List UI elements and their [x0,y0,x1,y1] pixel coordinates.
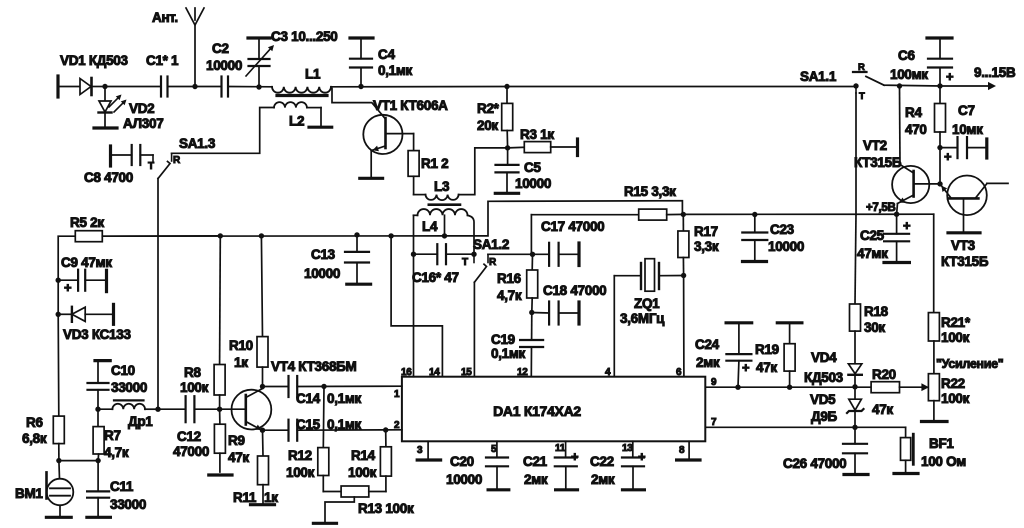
label C24 value [696,355,720,370]
capacitor C1 [161,77,168,97]
wire Dr1 to C12 [158,408,186,410]
wire SA1.3 R to L2 [172,108,274,154]
svg-text:VD4: VD4 [811,350,837,365]
resistor R12 [318,386,329,491]
node R8-R9 junction [217,407,222,412]
capacitor C20 [486,441,508,488]
label R9 [228,433,245,448]
wire R16 top riser [530,215,532,255]
transistor VT1 [363,115,413,154]
wire L4 right down [468,215,475,254]
label SA1.3 [179,136,216,151]
svg-text:2мк: 2мк [696,355,720,370]
label VT2 [863,138,887,153]
svg-text:100 Ом: 100 Ом [921,454,966,469]
ground R11 [251,503,275,506]
node R7-C11 junction [95,458,100,463]
svg-text:6,8к: 6,8к [22,431,47,446]
label R8 [184,365,201,380]
label pin4 [605,367,611,378]
wire R17 to pin6 [683,276,685,377]
svg-text:R8: R8 [184,365,201,380]
svg-text:R13 100к: R13 100к [358,501,414,516]
ground R22 [922,420,948,423]
ground C23 [743,260,767,263]
svg-text:L3: L3 [434,179,450,194]
label pin11 [555,443,566,454]
label C4 [378,47,395,62]
svg-text:12: 12 [517,367,528,378]
label R8 value [180,380,209,395]
svg-text:0,1мк: 0,1мк [491,346,526,361]
label L4 [422,219,438,234]
ground C20 [488,488,509,491]
svg-text:7: 7 [711,417,717,428]
svg-text:C7: C7 [958,103,975,118]
svg-text:L2: L2 [289,114,304,129]
svg-text:C8 4700: C8 4700 [84,170,133,185]
node C6 VT2 junction [897,83,902,88]
label R11 [233,490,257,505]
svg-text:100к: 100к [286,465,315,480]
svg-text:R7: R7 [104,428,121,443]
resistor R16 [527,254,538,312]
svg-text:BF1: BF1 [929,436,954,451]
capacitor C21 [555,441,577,488]
svg-text:15: 15 [461,367,472,378]
label pin6 [676,367,682,378]
svg-text:9: 9 [711,377,717,388]
resistor R9 [214,409,225,472]
label L2 [289,114,304,129]
label VD4 type [804,370,844,385]
svg-text:+7,5В: +7,5В [866,202,896,214]
svg-text:10000: 10000 [206,58,242,73]
svg-text:R17: R17 [694,224,718,239]
wire ZQ1 to pin4 [613,276,615,377]
svg-text:C5: C5 [524,160,541,175]
wire C1 to antenna node [168,86,222,88]
svg-text:VD2: VD2 [129,101,154,116]
label VD2 value [123,116,163,131]
label C7 [958,103,975,118]
zener VD3 [56,307,113,322]
label R12 value [286,465,315,480]
svg-text:33000: 33000 [110,497,146,512]
label pin15 [461,367,472,378]
svg-text:R10: R10 [229,338,253,353]
label BF1 value [921,454,966,469]
resistor R6 [53,416,64,461]
svg-text:C4: C4 [378,47,395,62]
svg-text:R9: R9 [228,433,245,448]
label R22 [941,376,965,391]
transistor VT3 [940,176,1008,232]
wire pin1 C14 [263,386,289,388]
label R18 value [864,320,885,335]
node C16 left junction [411,252,416,257]
label +7.5V [866,202,896,214]
svg-text:ZQ1: ZQ1 [634,296,660,311]
resistor R18 [850,214,861,363]
core Dr1 [114,399,144,401]
label R10 [229,338,253,353]
svg-text:R6: R6 [26,415,43,430]
inductor Dr1 [98,404,158,409]
ground BF1 [894,472,918,475]
label pin5 [491,444,497,455]
label C12 value [173,444,209,459]
label SA1.2 [473,237,509,252]
svg-text:C10: C10 [111,363,135,378]
wire emitter C15 [263,429,289,431]
node R16-C18 junction [529,310,534,315]
svg-text:10000: 10000 [768,239,804,254]
label pin9 [711,377,717,388]
svg-text:L4: L4 [422,219,438,234]
label SA1.2 R [489,257,497,268]
svg-text:SA1.1: SA1.1 [800,69,837,84]
label C10 value [111,380,147,395]
wire VD3 to R6 [57,314,60,416]
label C14 [296,391,321,406]
wire SA1.1 T down to rail [855,93,857,214]
svg-text:КД503: КД503 [804,370,844,385]
ground C5 [495,192,518,195]
svg-text:VD5: VD5 [810,392,836,407]
label C25 plus [903,218,911,233]
resistor R4 [935,86,946,148]
label C8 [84,170,133,185]
inductor L1 [272,87,331,93]
svg-text:C25: C25 [860,228,885,243]
label BF1 [929,436,954,451]
label C9 [61,255,112,270]
label C6 plus [946,69,954,84]
capacitor C16 [414,244,475,264]
label R17 value [694,239,719,254]
svg-text:R: R [489,257,497,268]
label C20 value [446,472,482,487]
svg-text:C13: C13 [311,247,336,262]
node L4 tap junction [442,233,447,238]
node C24 junction [735,385,740,390]
wire SA1.2 blade to pin15 [473,282,475,376]
variable capacitor C3 [246,38,274,87]
capacitor C12 [186,396,195,422]
svg-text:VT4 КТ368БМ: VT4 КТ368БМ [271,359,357,374]
resistor R2 [502,87,513,148]
label C22 plus [638,449,646,464]
terminal R3 right [576,139,579,156]
capacitor C24 [726,323,752,387]
svg-text:C15: C15 [296,417,321,432]
svg-text:R: R [173,155,181,166]
label C24 plus [742,360,750,375]
label C22 value [591,472,615,487]
diode VD1 [80,78,105,95]
capacitor C13 [345,235,369,283]
antenna Ант. [186,8,204,87]
wire L4 tap [444,215,446,236]
capacitor C7 [940,137,987,158]
svg-text:Д9Б: Д9Б [811,409,838,424]
label R16 [497,271,522,286]
svg-text:C6: C6 [898,48,915,63]
label SA1.1 [800,69,837,84]
svg-text:4,7к: 4,7к [497,288,522,303]
svg-text:АЛ307: АЛ307 [123,116,163,131]
terminal C17 right [577,243,580,266]
label C9 plus [64,280,72,295]
label C26 [783,456,846,471]
label C19 value [491,346,526,361]
label VD1 [60,53,128,68]
wire +7.5V rail [683,213,933,215]
svg-text:3,3к: 3,3к [694,239,719,254]
svg-text:R15 3,3к: R15 3,3к [624,184,676,199]
svg-text:47к: 47к [872,402,893,417]
node VT2 base junction [937,181,942,186]
node C14-R12 junction [321,384,326,389]
node R8 junction [218,233,223,238]
ground C11 [87,516,111,519]
svg-text:L1: L1 [305,67,321,82]
terminal input left [56,76,59,97]
svg-text:R18: R18 [864,304,889,319]
svg-text:C22: C22 [590,454,614,469]
svg-text:100к: 100к [941,391,970,406]
svg-text:470: 470 [905,122,927,137]
node VD5 pin7 junction [852,425,857,430]
transistor VT4 [232,389,272,431]
svg-text:R14: R14 [351,448,376,463]
ground C21 [556,488,578,491]
svg-text:0,1мк: 0,1мк [327,391,362,406]
node R2-R3-C5 junction [505,145,510,150]
label R12 [288,448,312,463]
label C25 [860,228,885,243]
label BM1 [15,486,43,501]
svg-text:100к: 100к [348,465,377,480]
svg-text:3: 3 [417,445,423,456]
svg-text:R19: R19 [755,342,779,357]
core L3/L4 [429,203,460,206]
svg-text:+: + [742,360,750,375]
label antenna [152,10,178,25]
label C11 [110,479,134,494]
svg-text:C24: C24 [695,337,720,352]
label C25 value [857,246,888,261]
terminal C18 right [577,302,580,324]
svg-text:C23: C23 [770,222,795,237]
svg-text:Т: Т [859,91,865,102]
wire C9 to VD3 [57,280,59,314]
wire C12 to VT4 base [194,408,245,410]
svg-text:1: 1 [394,389,400,400]
svg-text:33000: 33000 [111,380,147,395]
node C10-Dr1 junction [95,407,100,412]
svg-text:VT2: VT2 [863,138,887,153]
ground C25 [884,261,909,264]
svg-text:VT3: VT3 [951,238,976,253]
label R11 value [264,490,278,505]
crystal ZQ1 [614,259,683,292]
svg-text:47к: 47к [756,360,777,375]
capacitor C14 [289,376,402,397]
wire pin7 [705,426,905,428]
terminal C13 bottom [347,283,371,286]
label R15 [624,184,676,199]
label R18 [864,304,889,319]
resistor R11 [258,430,269,503]
svg-text:C16* 47: C16* 47 [412,270,459,285]
label C23 value [768,239,804,254]
capacitor C22 [622,441,644,488]
label R20 [872,367,896,382]
label C21 plus [571,449,579,464]
svg-text:R16: R16 [497,271,522,286]
resistor R17 [678,214,689,275]
label VD5 [810,392,836,407]
label R14 value [348,465,377,480]
label C14 value [327,391,362,406]
wire SA1.1 to C6 [884,84,940,87]
resistor R8 [214,236,225,409]
capacitor C23 [742,215,767,261]
capacitor C19 [520,313,543,377]
label C10 [111,363,135,378]
label L1 [305,67,321,82]
wire VT2 emitter to rail [896,204,899,215]
label C21 [523,454,548,469]
svg-text:C12: C12 [177,429,201,444]
svg-text:КТ315Б: КТ315Б [941,254,989,269]
label pin14 [429,367,440,378]
inductor L3 [414,195,459,201]
svg-text:47000: 47000 [173,444,209,459]
svg-text:R22: R22 [941,376,965,391]
label DA1 [493,403,581,419]
label C7 value [952,122,983,137]
node R15-R17 junction [681,212,686,217]
svg-text:4,7к: 4,7к [104,445,129,460]
label R6 [26,415,43,430]
svg-text:Др1: Др1 [128,414,153,429]
core L1/L2 [277,94,327,97]
ground C26 [844,473,868,476]
svg-text:Т: Т [148,161,154,172]
label VT3 type [941,254,989,269]
node R17-ZQ1 junction [681,273,686,278]
label R21 [941,315,971,330]
svg-text:+: + [944,149,952,164]
wire BM1 node to R7 [59,460,98,462]
svg-text:100мк: 100мк [890,67,928,82]
node SA1.3-mic junction [155,407,160,412]
switch SA1.1 [853,72,884,93]
wire pin14 riser [391,236,442,377]
resistor R7 [93,409,104,460]
svg-text:20к: 20к [477,118,498,133]
svg-text:C3 10...250: C3 10...250 [271,29,338,44]
svg-text:DA1 К174ХА2: DA1 К174ХА2 [493,403,581,419]
label R4 value [905,122,927,137]
pin3 ground lead [427,441,429,458]
svg-text:47к: 47к [228,450,249,465]
svg-text:Т: Т [462,257,468,268]
label R19 [755,342,779,357]
label C12 [177,429,201,444]
label pin2 [394,420,400,431]
svg-text:VT1 КТ606А: VT1 КТ606А [373,98,448,113]
switch SA1.2 [471,252,488,283]
svg-text:100к: 100к [941,330,970,345]
svg-text:13: 13 [622,443,633,454]
label R6 value [22,431,47,446]
svg-text:R5 2к: R5 2к [70,215,104,230]
svg-text:C26 47000: C26 47000 [783,456,846,471]
svg-text:1к: 1к [234,355,248,370]
ground BM1 [46,516,71,519]
node C4 junction [358,84,363,89]
svg-text:R2*: R2* [477,101,500,116]
resistor R14 [380,430,391,492]
svg-text:47мк: 47мк [857,246,888,261]
label R3 [520,127,554,142]
ground L2 [309,126,332,129]
svg-text:R3 1к: R3 1к [520,127,554,142]
wire pin16 riser [413,254,415,377]
label C13 [311,247,336,262]
svg-text:+: + [638,449,646,464]
label C18 [543,283,606,298]
wire top rail R2 to SA1.1 [507,86,855,88]
node R10 junction [259,233,264,238]
label C6 value [890,67,928,82]
node C6 junction [937,83,942,88]
node VD1-C1 junction [102,84,107,89]
svg-text:10000: 10000 [446,472,482,487]
potentiometer R22 [928,341,939,420]
svg-text:C2: C2 [212,41,229,56]
capacitor C17 [533,243,579,266]
label R2 value [477,118,498,133]
ground R9 [209,473,232,476]
svg-text:14: 14 [429,367,440,378]
svg-text:2мк: 2мк [591,472,615,487]
node VT4 collector junction [260,384,265,389]
diode VD4 [848,364,861,387]
svg-text:2мк: 2мк [524,472,548,487]
label SA1.1 R [858,62,865,73]
svg-text:C14: C14 [296,391,321,406]
terminal VT3 base bar [948,231,980,234]
node R2 junction [504,84,509,89]
svg-text:C1* 1: C1* 1 [146,53,179,68]
label C1 [146,53,179,68]
label R5 [70,215,104,230]
svg-text:10мк: 10мк [952,122,983,137]
label R21 value [941,330,970,345]
node VT4 emitter junction [260,428,265,433]
label pin1 [394,389,400,400]
svg-text:VD3 КС133: VD3 КС133 [63,327,131,342]
svg-text:8: 8 [679,445,685,456]
transistor VT2 [892,165,940,204]
label R14 [351,448,376,463]
label R17 [694,224,718,239]
